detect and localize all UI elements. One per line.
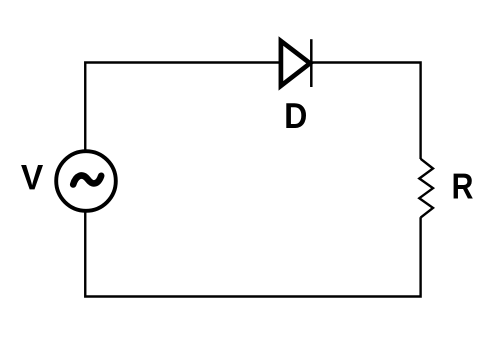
AC voltage source V: sine (tilde) symbol	[73, 176, 101, 185]
wire: top-right segment (diode cathode to resistor top)	[312, 63, 421, 160]
AC voltage source V: circle	[56, 151, 116, 211]
diode D: cathode bar	[310, 39, 313, 87]
wire: top-left segment (source top to diode anode)	[85, 63, 279, 152]
label V	[21, 165, 43, 189]
label R	[454, 174, 473, 199]
diode D: triangle (anode)	[281, 41, 310, 86]
label D	[286, 103, 306, 128]
resistor R: zigzag	[419, 159, 433, 218]
wire: bottom loop (source bottom to resistor bottom)	[85, 212, 420, 297]
